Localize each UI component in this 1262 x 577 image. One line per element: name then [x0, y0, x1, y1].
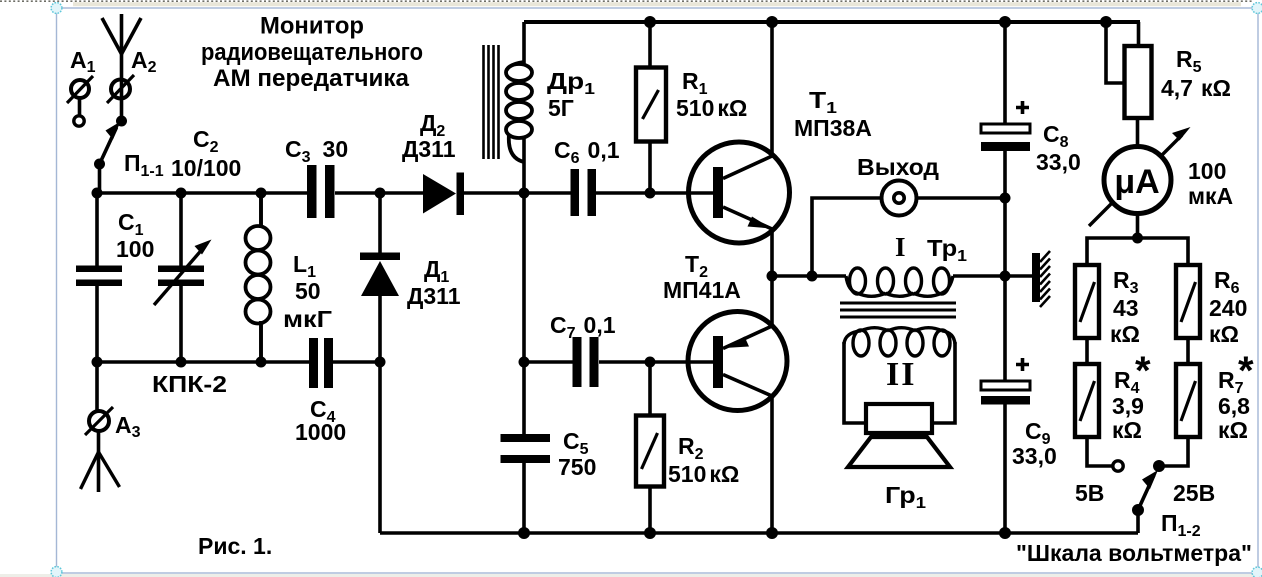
wire emitter node to output branch	[772, 274, 846, 278]
transistor T2	[688, 312, 787, 411]
junction top bus / T1 collector	[766, 16, 778, 28]
svg-text:"Шкала вольтметра": "Шкала вольтметра"	[1016, 540, 1252, 566]
switch P1-1 blade	[100, 122, 121, 165]
wire R2 bottom	[648, 488, 652, 533]
wire node R1 to T1 base	[650, 191, 713, 195]
choke Dr1 winding	[506, 62, 532, 162]
junction top bus / R5 tap	[1100, 16, 1112, 28]
wire choke bottom	[522, 138, 526, 193]
capacitor C9 polarized	[981, 358, 1030, 405]
capacitor C5	[501, 434, 551, 463]
wire L1 bottom	[259, 323, 263, 362]
junction lower rail / C2	[176, 357, 187, 368]
wire A1 stub	[78, 98, 82, 116]
junction meter divider	[1132, 233, 1143, 244]
svg-text:1000: 1000	[295, 419, 346, 445]
transformer Tr1 secondary II	[844, 328, 955, 356]
junction rail / C2	[176, 188, 187, 199]
switch P1-2 blade	[1138, 470, 1158, 510]
capacitor C6	[571, 169, 597, 216]
svg-text:10/100: 10/100	[171, 155, 241, 181]
svg-text:Монитор: Монитор	[260, 13, 364, 40]
wire C8 bottom	[1003, 151, 1007, 198]
capacitor C7	[573, 337, 599, 387]
speaker Gr1	[848, 404, 950, 467]
wire R3 to R4	[1085, 340, 1089, 362]
svg-text:Д311: Д311	[407, 283, 461, 309]
wire C3 to node D	[335, 191, 380, 195]
wire C7 to node R2	[599, 360, 650, 364]
svg-text:33,0: 33,0	[1036, 149, 1081, 175]
junction lower rail / L1	[256, 357, 267, 368]
resistor R2	[636, 416, 664, 487]
wire lower-left rail y362	[97, 360, 309, 364]
wire R7 to 25V contact	[1160, 439, 1188, 466]
svg-text:кΩ: кΩ	[1112, 417, 1142, 443]
svg-text:510кΩ: 510кΩ	[676, 95, 747, 121]
wire R4 to 5V terminal	[1087, 439, 1112, 466]
wire left rail y193	[97, 191, 307, 195]
diode D1	[360, 253, 400, 297]
wire T1 collector vertical	[770, 22, 774, 156]
junction rail / C1	[92, 188, 103, 199]
wire D1 to lower rail	[378, 296, 382, 362]
wire C2 bottom	[179, 286, 183, 362]
wire T2 emitter vertical	[770, 276, 774, 325]
junction primary / ground column	[1000, 271, 1011, 282]
chassis ground	[1032, 251, 1050, 307]
terminal 5V open	[1113, 461, 1123, 471]
svg-text:кΩ: кΩ	[1209, 321, 1239, 347]
wire P1-2 pole to bottom bus	[1136, 510, 1140, 533]
wire R2 top	[648, 362, 652, 414]
svg-text:750: 750	[558, 454, 596, 480]
wire transformer secondary left leg	[844, 342, 865, 423]
selection handle bottom-left	[51, 567, 62, 577]
connector A2	[107, 75, 134, 103]
svg-text:АМ передатчика: АМ передатчика	[213, 65, 409, 92]
selection handle top-right	[1252, 3, 1262, 14]
junction node R2 base	[645, 357, 656, 368]
junction bottom bus / C5	[518, 527, 530, 539]
wire C5 column top	[522, 193, 526, 434]
wire C6 to node R1	[596, 191, 650, 195]
svg-text:Рис. 1.: Рис. 1.	[198, 533, 272, 559]
wire D2 to node E	[464, 191, 524, 195]
wire top bus	[524, 20, 1140, 24]
inductor L1	[246, 193, 271, 362]
capacitor C8 polarized	[981, 101, 1030, 151]
svg-text:33,0: 33,0	[1012, 443, 1057, 469]
svg-text:КПК-2: КПК-2	[152, 371, 227, 397]
capacitor C1	[76, 266, 122, 287]
svg-text:25В: 25В	[1173, 480, 1215, 506]
junction C5 / C7	[519, 357, 530, 368]
resistor R5	[1125, 46, 1152, 118]
wire C8 top	[1003, 22, 1007, 124]
wire L1 top	[259, 193, 263, 226]
wire meter to divider node	[1136, 215, 1140, 238]
wire C1 top	[95, 193, 99, 266]
svg-text:II: II	[886, 356, 916, 393]
resistor R4	[1075, 364, 1099, 437]
junction switch P1-1 lower contact	[94, 159, 105, 170]
junction lower rail / C1	[92, 357, 103, 368]
output jack	[882, 181, 917, 216]
svg-text:радиовещательного: радиовещательного	[201, 39, 423, 66]
svg-text:510кΩ: 510кΩ	[668, 461, 739, 487]
svg-text:кΩ: кΩ	[1110, 321, 1140, 347]
svg-text:100: 100	[1188, 158, 1226, 184]
junction rail / L1	[256, 188, 267, 199]
bottom gray band	[0, 574, 1262, 577]
svg-text:240: 240	[1209, 295, 1247, 321]
junction node D top	[375, 188, 386, 199]
wire R1 bottom	[648, 143, 652, 193]
wire A3 drop	[95, 362, 99, 411]
wire C2 top	[179, 193, 183, 266]
wire output branch riser	[812, 198, 881, 276]
svg-text:кΩ: кΩ	[1218, 417, 1248, 443]
wire choke top	[522, 22, 526, 64]
junction 25V contact	[1153, 460, 1165, 472]
junction P1-2 pole	[1132, 504, 1144, 516]
resistor R3	[1075, 265, 1099, 338]
wire node D to diode D2	[380, 191, 423, 195]
wire R5 to meter	[1136, 119, 1140, 145]
svg-text:3,9: 3,9	[1112, 393, 1144, 419]
svg-text:5Г: 5Г	[548, 95, 574, 121]
selection handle top-left	[51, 3, 62, 14]
resistor R1	[636, 68, 666, 142]
wire bus corner to R5	[1137, 22, 1141, 46]
wire R6 to R7	[1186, 340, 1190, 362]
junction switch P1-1 upper contact	[116, 116, 127, 127]
wire A3 to counterpoise	[97, 431, 101, 492]
svg-text:I: I	[895, 232, 906, 262]
junction output riser	[807, 271, 818, 282]
svg-text:5В: 5В	[1075, 480, 1104, 506]
wire C9 bottom	[1003, 404, 1007, 533]
wire node E to C6	[524, 191, 571, 195]
wire D1 top	[378, 193, 382, 253]
wire node R2 to T2 base	[650, 360, 713, 364]
capacitor C2 trimmer	[154, 240, 212, 306]
junction node E	[519, 188, 530, 199]
capacitor C4	[309, 338, 333, 388]
wire transformer secondary right leg	[933, 342, 955, 423]
wire D1 column to bottom bus	[378, 362, 382, 533]
wire primary right stub	[953, 274, 1032, 278]
svg-text:Д311: Д311	[402, 136, 456, 162]
resistor R7	[1176, 364, 1200, 437]
wire R1 top	[648, 22, 652, 66]
svg-text:мкА: мкА	[1188, 183, 1233, 209]
svg-text:МП38А: МП38А	[794, 115, 872, 141]
svg-text:*: *	[1238, 349, 1254, 393]
wire T1 emitter vertical	[770, 229, 774, 276]
svg-text:43: 43	[1113, 295, 1139, 321]
wire R5 tap	[1106, 22, 1124, 83]
resistor R6	[1176, 265, 1200, 338]
junction top bus / R1	[644, 16, 656, 28]
transistor T1	[689, 142, 790, 243]
junction output / C8 column	[1000, 193, 1011, 204]
svg-text:6,8: 6,8	[1218, 393, 1250, 419]
svg-text:С70,1: С70,1	[550, 312, 616, 342]
transformer Tr1 primary I	[846, 268, 953, 296]
wire T2 collector vertical	[770, 396, 774, 533]
choke Dr1 core	[484, 45, 499, 159]
counterpoise ground A3	[81, 452, 120, 489]
svg-text:100: 100	[116, 236, 154, 262]
svg-text:МП41А: МП41А	[663, 277, 741, 303]
wire bottom bus	[380, 531, 1138, 535]
junction bottom bus / C9	[999, 527, 1011, 539]
wire C5 bottom	[522, 463, 526, 533]
svg-text:Выход: Выход	[857, 154, 939, 180]
junction node D bottom	[375, 357, 386, 368]
junction top bus / C8	[999, 16, 1011, 28]
selection handle bottom-right	[1252, 567, 1262, 577]
connector A3	[85, 407, 113, 435]
connector A1	[67, 76, 93, 126]
transformer Tr1 core	[840, 303, 956, 317]
junction bottom bus / T2	[766, 527, 778, 539]
svg-text:50: 50	[295, 278, 321, 304]
diode D2	[423, 173, 464, 216]
wire C4 to node D	[333, 360, 380, 364]
wire divider top rail	[1087, 238, 1188, 263]
junction node R1 base	[645, 188, 656, 199]
wire C8 node to C9	[1003, 198, 1007, 381]
toolbar tan strip	[73, 2, 1241, 6]
wire A2 to switch contact	[120, 99, 124, 121]
wire output jack to C8 column	[917, 196, 1005, 200]
svg-text:мкГ: мкГ	[283, 306, 332, 332]
canvas dotted border	[0, 0, 1253, 2]
junction bottom bus / R2	[644, 527, 656, 539]
meter uA	[1089, 127, 1191, 226]
wire C1 bottom	[95, 286, 99, 362]
svg-text:*: *	[1135, 349, 1151, 393]
svg-text:μА: μА	[1114, 163, 1159, 201]
wire P1-1 lower to rail	[98, 164, 102, 193]
antenna A2	[102, 14, 141, 99]
wire C7 left	[524, 360, 573, 364]
capacitor C3	[307, 165, 335, 218]
junction emitter node	[767, 271, 778, 282]
svg-text:С60,1: С60,1	[554, 137, 620, 167]
